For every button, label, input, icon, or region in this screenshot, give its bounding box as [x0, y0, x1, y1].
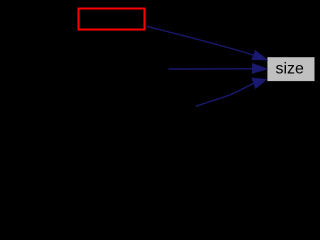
svg-text:size: size	[275, 61, 304, 78]
node N1 (truncated caller, red outline)	[79, 9, 145, 30]
edge N2 to size (wire)	[169, 68, 253, 70]
edge N3 to size (wire)	[196, 83, 254, 106]
edge N1 to size (wire)	[147, 26, 254, 55]
arrowhead edge N2 to size	[252, 64, 266, 74]
node size (root, grey filled)	[267, 57, 314, 81]
arrowhead edge N3 to size	[252, 78, 266, 88]
arrowhead edge N1 to size	[252, 51, 267, 60]
